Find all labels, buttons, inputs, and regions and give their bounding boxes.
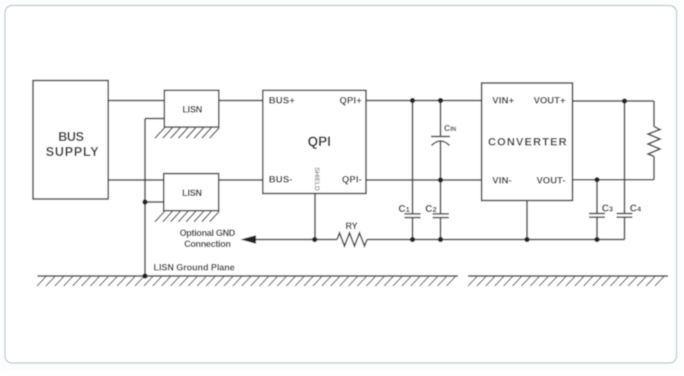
wire arrow to shield junction — [256, 239, 315, 241]
svg-text:VIN+: VIN+ — [492, 95, 514, 106]
svg-text:VIN-: VIN- — [492, 175, 512, 186]
ground plane line right segment — [468, 275, 668, 277]
wire load resistor bottom lead — [653, 157, 655, 180]
node junction converter baseplate on gnd rail — [524, 237, 529, 242]
node junction C1 top on VIN+ rail — [410, 98, 415, 103]
svg-text:QPI: QPI — [308, 134, 331, 149]
node junction LISN ground plane tie — [142, 273, 147, 278]
wire LISN2 ground tap — [145, 201, 164, 203]
capacitor C3 bottom lead — [596, 217, 598, 239]
resistor RLOAD — [648, 127, 660, 157]
capacitor CIN — [431, 137, 450, 146]
capacitor C2 top lead — [440, 180, 442, 214]
wire BUS+ bus-supply to LISN1 — [108, 100, 164, 102]
svg-text:CONVERTER: CONVERTER — [488, 137, 568, 149]
ground plane line left segment — [37, 275, 458, 277]
capacitor CIN top lead — [440, 101, 442, 137]
wire VOUT+ to load — [573, 100, 655, 102]
ground plane hatching — [37, 277, 664, 287]
label BUS SUPPLY — [46, 130, 100, 159]
svg-text:C4: C4 — [630, 203, 642, 214]
node junction LISN2 ground tap — [142, 199, 147, 204]
svg-text:RY: RY — [346, 221, 358, 231]
capacitor C4 top lead — [624, 101, 626, 214]
svg-text:C2: C2 — [425, 204, 436, 215]
svg-text:C1: C1 — [398, 204, 409, 215]
svg-text:Optional GND: Optional GND — [180, 228, 236, 238]
svg-text:SHIELD: SHIELD — [313, 167, 320, 191]
svg-text:LISN: LISN — [182, 188, 202, 198]
ground LISN1 hatching — [155, 128, 219, 138]
LISN L2 box — [164, 174, 219, 211]
node junction C1 bottom on gnd rail — [410, 237, 415, 242]
capacitor CIN bottom lead — [440, 141, 442, 180]
capacitor C1 bottom lead — [412, 218, 414, 240]
capacitor C2 bottom lead — [440, 218, 442, 240]
wire QPI shield lead — [314, 194, 316, 240]
capacitor C4 — [617, 214, 633, 218]
capacitor C1 top lead — [412, 101, 414, 214]
svg-text:C3: C3 — [602, 203, 613, 214]
wire RY to C4 shield rail — [367, 239, 625, 241]
label optional gnd connection — [180, 228, 236, 249]
svg-text:BUS: BUS — [58, 130, 83, 144]
wire converter baseplate lead — [526, 201, 528, 240]
capacitor C3 top lead — [596, 180, 598, 214]
node junction shield to gnd rail — [312, 237, 317, 242]
node junction C3 bottom on gnd rail — [594, 237, 599, 242]
node junction CIN/C2 on VIN- rail — [438, 177, 443, 182]
bus supply box — [33, 81, 108, 200]
wire BUS- bus-supply to LISN2 — [108, 179, 164, 181]
wire LISN1 to QPI BUS+ — [219, 100, 263, 102]
svg-text:BUS+: BUS+ — [269, 96, 296, 107]
svg-text:Connection: Connection — [184, 239, 231, 249]
svg-text:QPI-: QPI- — [342, 175, 362, 186]
capacitor C1 — [404, 214, 420, 218]
op-amp QPI filter box U1 — [263, 90, 366, 193]
ground LISN2 hatching — [155, 211, 219, 221]
svg-text:VOUT-: VOUT- — [536, 175, 565, 186]
capacitor C4 bottom lead — [624, 217, 626, 239]
node arrow optional gnd — [241, 235, 257, 244]
svg-text:VOUT+: VOUT+ — [534, 95, 566, 106]
wire shield junction to RY — [315, 239, 337, 241]
capacitor C2 — [433, 214, 449, 218]
LISN L1 box — [164, 90, 219, 127]
wire LISN ground vertical — [144, 119, 146, 277]
wire LISN1 ground tap — [145, 118, 164, 120]
node junction CIN top on VIN+ rail — [438, 98, 443, 103]
svg-text:QPI+: QPI+ — [339, 96, 362, 107]
wire QPI- to converter VIN- — [366, 179, 482, 181]
converter box U2 — [482, 83, 573, 201]
resistor RY — [337, 233, 367, 246]
node junction C2 bottom on gnd rail — [438, 237, 443, 242]
wire load resistor top lead — [653, 101, 655, 127]
svg-text:BUS-: BUS- — [269, 175, 293, 186]
node junction C3 top on VOUT- rail — [594, 177, 599, 182]
svg-text:LISN: LISN — [182, 105, 202, 115]
svg-text:LISN Ground Plane: LISN Ground Plane — [154, 263, 235, 273]
svg-text:SUPPLY: SUPPLY — [46, 145, 100, 159]
node junction C4 top on VOUT+ rail — [622, 98, 627, 103]
capacitor C3 — [589, 214, 605, 218]
wire QPI+ to converter VIN+ — [366, 100, 482, 102]
wire LISN2 to QPI BUS- — [219, 179, 263, 181]
wire VOUT- to load — [573, 179, 655, 181]
